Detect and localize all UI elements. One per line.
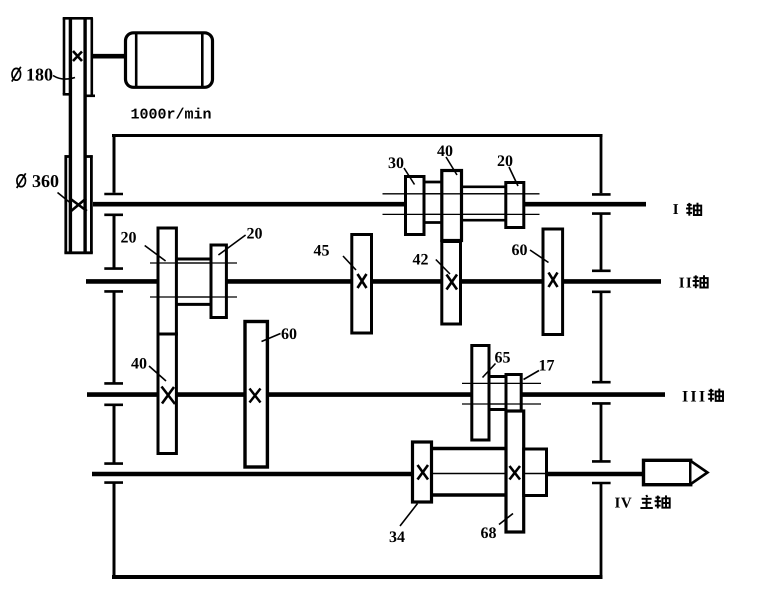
gear 20 right shaft II bbox=[211, 245, 226, 318]
leader 45 bbox=[343, 256, 356, 270]
leader 65 bbox=[483, 364, 496, 378]
shaft label II 轴 bbox=[679, 275, 708, 291]
gear 17 shaft III bbox=[506, 375, 521, 412]
shaft label I 轴 bbox=[673, 202, 701, 218]
sliding sleeve gear65-gear17 bbox=[489, 377, 506, 410]
spline lines shaft I cluster bbox=[383, 194, 540, 215]
sleeve between gear34 and gear68 shaft IV bbox=[432, 449, 507, 496]
svg-text:I: I bbox=[673, 202, 679, 218]
svg-text:40: 40 bbox=[437, 143, 453, 160]
spline lines shaft I cluster overlay bbox=[406, 194, 524, 215]
motor end cap line left bbox=[135, 34, 138, 87]
label φ180 bbox=[12, 64, 53, 84]
belt bbox=[70, 18, 85, 253]
leader 20 shaft I bbox=[509, 167, 518, 186]
X mark gear 42 bbox=[447, 275, 458, 290]
gear 60 shaft III bbox=[245, 322, 267, 468]
spindle nose body bbox=[644, 460, 691, 484]
gearbox housing bottom wall bbox=[112, 575, 603, 579]
bearing shaft II right bbox=[592, 271, 611, 292]
leader 17 bbox=[524, 371, 540, 380]
svg-text:40: 40 bbox=[131, 356, 147, 373]
leader 42 bbox=[436, 260, 450, 275]
leader φ180 bbox=[53, 76, 75, 80]
spline lines shaft III cluster bbox=[462, 383, 541, 404]
svg-text:60: 60 bbox=[281, 326, 297, 343]
bearing shaft IV right bbox=[592, 461, 611, 483]
leader 60 shaft III bbox=[262, 334, 281, 342]
X mark gear 34 bbox=[418, 465, 429, 480]
svg-text:360: 360 bbox=[32, 171, 59, 191]
leader 30 bbox=[404, 168, 415, 185]
gear 34 shaft IV bbox=[413, 442, 432, 502]
gear 45 shaft II bbox=[352, 235, 372, 334]
shaft IV bbox=[92, 472, 644, 477]
leader 20 left shaft II bbox=[145, 246, 166, 262]
motor shaft bbox=[92, 54, 126, 59]
thin center line hub bbox=[524, 473, 547, 475]
gear 30 shaft I bbox=[406, 177, 425, 235]
svg-text:II: II bbox=[679, 275, 693, 291]
svg-text:20: 20 bbox=[247, 226, 263, 243]
leader 68 bbox=[499, 514, 513, 525]
svg-text:20: 20 bbox=[497, 153, 513, 170]
svg-text:17: 17 bbox=[539, 357, 555, 374]
spindle nose cone bbox=[692, 462, 708, 484]
hub right of gear 68 bbox=[524, 449, 547, 496]
bearing shaft III right bbox=[592, 382, 611, 403]
leader 60 shaft II bbox=[530, 250, 549, 263]
sliding sleeve gear20-gear20 shaft II bbox=[176, 259, 211, 304]
bearing shaft IV left bbox=[104, 464, 123, 483]
gear 20 left shaft II bbox=[158, 228, 176, 334]
gear 40 shaft I bbox=[442, 171, 462, 241]
spline lines shaft III overlay bbox=[472, 383, 521, 404]
X mark gear 45 bbox=[358, 274, 367, 288]
gear 42 shaft II bbox=[442, 242, 461, 325]
X mark gear 60 shaft II bbox=[549, 273, 558, 288]
gear 60 shaft II bbox=[543, 229, 563, 335]
shaft IV thin center line through sleeve bbox=[432, 473, 547, 475]
gearbox housing left wall bbox=[113, 134, 116, 578]
svg-text:68: 68 bbox=[481, 525, 497, 542]
pulley φ360 bbox=[64, 155, 92, 253]
svg-text:65: 65 bbox=[495, 350, 511, 367]
svg-text:42: 42 bbox=[413, 252, 429, 269]
leader φ360 bbox=[58, 193, 71, 204]
svg-text:180: 180 bbox=[26, 64, 53, 84]
svg-text:30: 30 bbox=[388, 155, 404, 172]
svg-text:1000r/min: 1000r/min bbox=[131, 107, 212, 124]
shaft label III 轴 bbox=[682, 388, 723, 405]
svg-text:34: 34 bbox=[389, 529, 405, 546]
gearbox housing right wall bbox=[600, 134, 603, 578]
gearbox housing top wall bbox=[112, 134, 603, 137]
X mark gear 60 shaft III bbox=[250, 389, 261, 403]
leader 34 bbox=[400, 504, 418, 527]
shaft label IV 主轴 bbox=[615, 495, 670, 512]
leader 40 shaft I bbox=[446, 157, 457, 175]
spline lines shaft II cluster bbox=[150, 263, 237, 297]
leader 20 right shaft II bbox=[218, 235, 245, 255]
shaft III bbox=[87, 392, 665, 397]
X mark pulley φ180 bbox=[73, 51, 82, 61]
motor end cap line right bbox=[201, 34, 204, 87]
X mark gear 40 shaft III bbox=[162, 387, 176, 405]
bearing shaft I left bbox=[104, 194, 123, 215]
sliding sleeve gear30-gear40 bbox=[424, 182, 442, 223]
gear 20 shaft I bbox=[506, 183, 524, 228]
shaft II bbox=[86, 279, 661, 284]
label φ360 bbox=[17, 171, 59, 191]
X mark pulley φ360 bbox=[70, 199, 87, 212]
gear 40 shaft III bbox=[158, 334, 176, 454]
svg-text:20: 20 bbox=[121, 229, 137, 246]
shaft I bbox=[93, 202, 646, 207]
svg-text:IV: IV bbox=[615, 496, 633, 512]
gear 65 shaft III bbox=[472, 346, 489, 441]
leader 40 shaft III bbox=[149, 366, 166, 381]
svg-text:III: III bbox=[682, 388, 707, 405]
X mark gear 68 bbox=[510, 466, 521, 480]
gear 68 shaft IV bbox=[506, 411, 524, 532]
sliding sleeve gear40-gear20 bbox=[461, 187, 506, 220]
spline lines shaft II overlay bbox=[158, 263, 226, 297]
bearing shaft III left bbox=[104, 383, 123, 404]
pulley φ180 bbox=[63, 18, 95, 96]
bearing shaft II left bbox=[104, 269, 123, 292]
svg-text:60: 60 bbox=[512, 242, 528, 259]
bearing shaft I right bbox=[592, 194, 611, 213]
svg-text:45: 45 bbox=[314, 243, 330, 260]
motor M bbox=[126, 33, 213, 88]
